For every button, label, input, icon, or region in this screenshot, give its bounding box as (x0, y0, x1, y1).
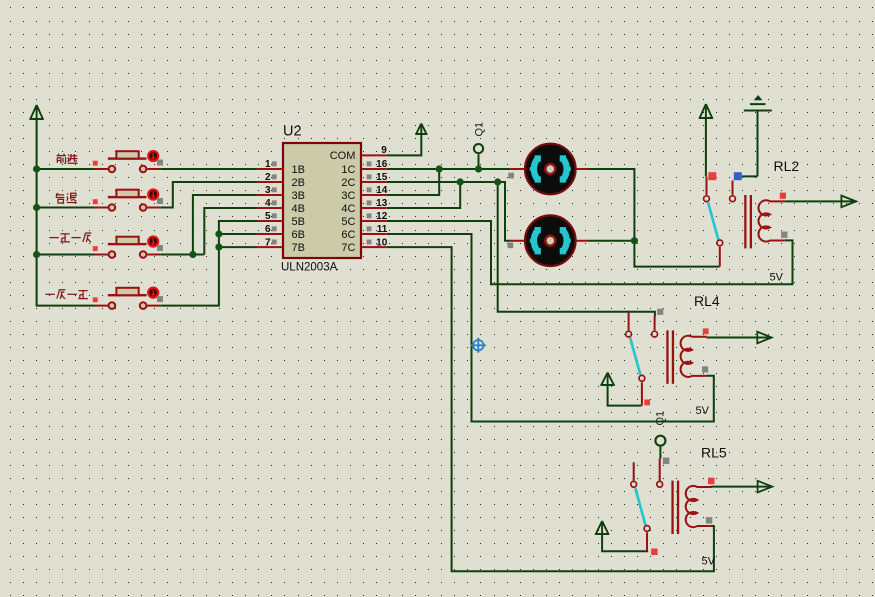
svg-text:3: 3 (265, 185, 271, 196)
svg-text:6: 6 (265, 224, 271, 235)
svg-text:4: 4 (265, 198, 271, 209)
svg-text:U2: U2 (283, 123, 302, 139)
svg-text:5V: 5V (702, 556, 716, 568)
svg-text:7B: 7B (292, 242, 305, 254)
svg-text:COM: COM (330, 150, 356, 162)
svg-text:6B: 6B (292, 229, 305, 241)
svg-text:5V: 5V (696, 405, 710, 417)
svg-text:5B: 5B (292, 216, 305, 228)
svg-text:5C: 5C (341, 216, 355, 228)
svg-text:9: 9 (381, 145, 387, 156)
svg-text:3C: 3C (341, 190, 355, 202)
svg-text:6C: 6C (341, 229, 355, 241)
svg-text:2C: 2C (341, 177, 355, 189)
svg-text:1: 1 (265, 159, 271, 170)
svg-text:1B: 1B (292, 164, 305, 176)
svg-text:RL5: RL5 (701, 445, 727, 461)
svg-text:7C: 7C (341, 242, 355, 254)
svg-text:7: 7 (265, 237, 271, 248)
svg-text:3B: 3B (292, 190, 305, 202)
svg-text:4B: 4B (292, 203, 305, 215)
svg-text:16: 16 (376, 159, 388, 170)
svg-text:5: 5 (265, 211, 271, 222)
svg-text:2: 2 (265, 172, 271, 183)
svg-text:ULN2003A: ULN2003A (281, 262, 338, 274)
svg-text:RL4: RL4 (694, 293, 720, 309)
svg-text:10: 10 (376, 237, 388, 248)
svg-text:13: 13 (376, 198, 388, 209)
svg-text:12: 12 (376, 211, 388, 222)
svg-text:15: 15 (376, 172, 388, 183)
svg-text:5V: 5V (770, 272, 784, 284)
svg-text:Q1: Q1 (474, 122, 486, 137)
svg-text:14: 14 (376, 185, 388, 196)
svg-text:4C: 4C (341, 203, 355, 215)
svg-text:2B: 2B (292, 177, 305, 189)
svg-text:1C: 1C (341, 164, 355, 176)
svg-text:Q1: Q1 (655, 411, 667, 426)
svg-text:11: 11 (377, 224, 388, 235)
svg-text:RL2: RL2 (774, 158, 800, 174)
